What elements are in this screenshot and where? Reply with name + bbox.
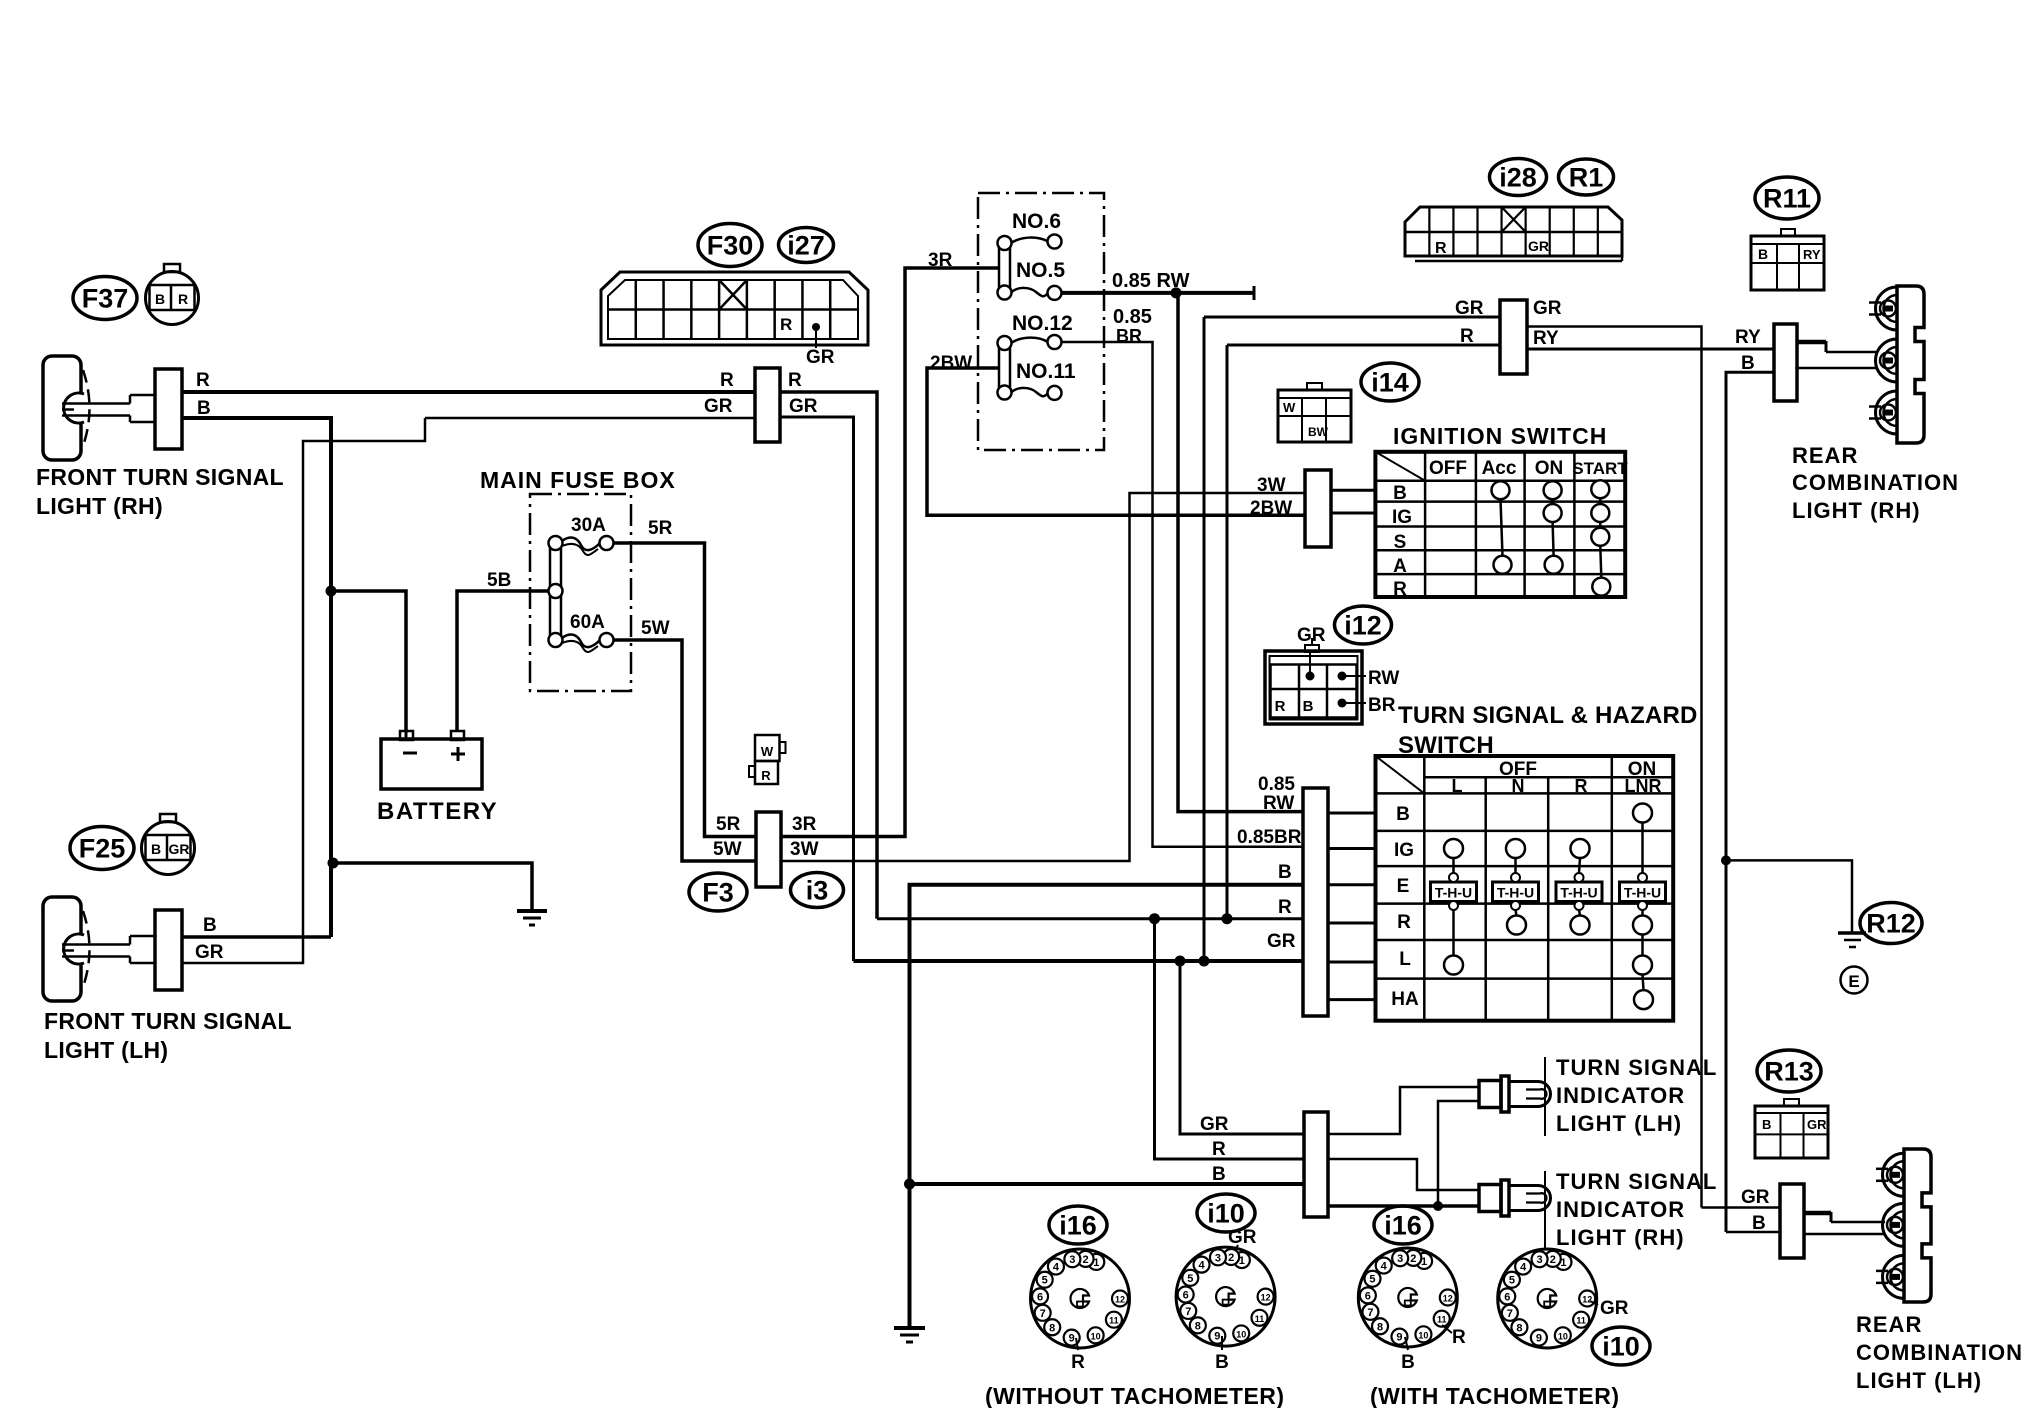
svg-text:REAR: REAR [1792, 443, 1858, 468]
wire B to RH indicator [1328, 1204, 1479, 1208]
svg-text:7: 7 [1507, 1308, 1513, 1320]
wire R (connector to down-run) [780, 392, 877, 919]
connector label F30 [698, 224, 762, 267]
connector ignition switch [1305, 470, 1331, 547]
fuse block (dashed) [978, 193, 1104, 450]
svg-text:R: R [196, 370, 210, 391]
svg-text:9: 9 [1396, 1332, 1402, 1344]
connector label i14 [1361, 363, 1419, 401]
svg-text:11: 11 [1576, 1316, 1586, 1326]
junction B indicator [904, 1179, 915, 1190]
svg-text:L: L [1452, 776, 1463, 796]
svg-text:F3: F3 [702, 877, 734, 907]
svg-text:LIGHT (LH): LIGHT (LH) [1556, 1111, 1682, 1136]
svg-text:RY: RY [1803, 247, 1821, 262]
svg-text:(WITH TACHOMETER): (WITH TACHOMETER) [1370, 1383, 1620, 1408]
svg-text:3: 3 [1215, 1252, 1221, 1264]
wire GR vertical (to TS switch) [1203, 317, 1206, 961]
label R (i16-1) [1076, 1338, 1078, 1350]
svg-text:E: E [1397, 876, 1410, 897]
wire B front (RH light, turns down) [182, 418, 331, 937]
svg-text:RY: RY [1533, 328, 1559, 349]
svg-text:7: 7 [1185, 1306, 1191, 1318]
svg-text:ON: ON [1535, 458, 1564, 479]
svg-text:BR: BR [1368, 695, 1396, 716]
connector label F3 [689, 873, 747, 911]
connector i12 [1265, 651, 1362, 724]
turn signal hazard switch table [1376, 756, 1674, 1021]
wire B up to LH indicator [1438, 1101, 1479, 1206]
svg-text:3R: 3R [792, 814, 817, 835]
svg-text:6: 6 [1037, 1291, 1043, 1303]
pin GR (F30 panel) [812, 323, 820, 331]
svg-text:i12: i12 [1344, 610, 1382, 640]
svg-text:GR: GR [169, 841, 190, 857]
svg-text:R1: R1 [1569, 162, 1604, 192]
junction B/ground [328, 858, 339, 869]
svg-text:LIGHT (RH): LIGHT (RH) [1556, 1225, 1685, 1250]
ground R12 [1838, 931, 1866, 935]
fuse bus bar [550, 543, 561, 641]
svg-text:E: E [1848, 972, 1859, 991]
connector rear harness (GR/RY) [1500, 300, 1527, 374]
connector label i16 (1) [1049, 1206, 1107, 1244]
connector label R12 [1860, 903, 1922, 944]
wire 5W [613, 640, 756, 861]
svg-text:11: 11 [1437, 1315, 1447, 1325]
connector F3/i3 [756, 812, 781, 887]
fuse panel F30 X mark [719, 280, 747, 310]
svg-text:2: 2 [1550, 1254, 1556, 1266]
svg-text:R: R [1452, 1327, 1466, 1348]
svg-text:5W: 5W [713, 839, 742, 860]
svg-text:T-H-U: T-H-U [1560, 885, 1597, 901]
svg-text:2: 2 [1083, 1254, 1089, 1266]
ground (instrument panel) [894, 1326, 925, 1330]
connector label F37 [73, 277, 137, 320]
fuse NO.12/NO.11 bar [999, 343, 1010, 393]
wire RY [1527, 348, 1774, 351]
svg-text:i3: i3 [806, 875, 829, 905]
svg-text:5: 5 [1187, 1273, 1193, 1285]
connector label R11 [1755, 177, 1819, 219]
svg-text:B: B [1762, 1117, 1771, 1132]
fuse panel i28/R1 outline [1405, 207, 1622, 256]
rear combination light (RH) [1897, 286, 1924, 443]
svg-text:LIGHT (RH): LIGHT (RH) [36, 493, 163, 519]
ground (battery area) [517, 909, 547, 913]
connector R13 [1755, 1106, 1828, 1158]
svg-text:IG: IG [1392, 507, 1412, 528]
wire GR into R13 connector [1702, 1206, 1781, 1209]
svg-text:2: 2 [1410, 1253, 1416, 1265]
svg-text:LIGHT (RH): LIGHT (RH) [1792, 498, 1921, 523]
wire R to indicator [1155, 919, 1305, 1159]
svg-text:8: 8 [1516, 1322, 1522, 1334]
connector i16 (without tach) [1031, 1249, 1130, 1348]
fuse NO.6/NO.5 bar [999, 243, 1010, 293]
svg-text:NO.6: NO.6 [1012, 210, 1061, 233]
svg-text:2: 2 [1228, 1252, 1234, 1264]
connector R11 [1751, 236, 1824, 290]
wire 2BW [927, 368, 1305, 515]
svg-text:LIGHT (LH): LIGHT (LH) [1856, 1368, 1982, 1393]
svg-text:3R: 3R [928, 250, 953, 271]
wire GR right of connector [1527, 327, 1702, 1208]
label GR (i10-2) [1590, 1301, 1598, 1305]
label B (i16-2) [1405, 1337, 1408, 1350]
svg-text:7: 7 [1367, 1307, 1373, 1319]
svg-text:5R: 5R [648, 518, 673, 539]
svg-text:4: 4 [1520, 1262, 1527, 1274]
ignition switch table [1375, 452, 1625, 597]
junction B/battery [326, 586, 337, 597]
T-H-U boxes [1431, 882, 1477, 902]
svg-text:F25: F25 [79, 833, 126, 863]
svg-text:GR: GR [1228, 1227, 1257, 1248]
fuse NO.12/NO.11 terminals [998, 336, 1012, 350]
wire 0.85RW end tick [1253, 286, 1256, 300]
fuse panel F30 grid [635, 280, 638, 339]
svg-text:R: R [1435, 240, 1447, 257]
i12 GR pin [1306, 672, 1315, 681]
svg-text:REAR: REAR [1856, 1312, 1922, 1337]
connector label i12 [1335, 606, 1392, 644]
svg-text:R: R [761, 768, 771, 783]
svg-text:NO.12: NO.12 [1012, 312, 1073, 335]
svg-text:RY: RY [1735, 327, 1761, 348]
svg-text:5: 5 [1042, 1275, 1048, 1287]
fuse NO.11 link [1011, 388, 1048, 396]
fuse panel F30/i27 outline [601, 272, 868, 345]
svg-text:4: 4 [1198, 1260, 1205, 1272]
svg-text:GR: GR [1807, 1117, 1827, 1132]
svg-text:BW: BW [1308, 425, 1329, 439]
fuse terminal bottom [549, 633, 563, 647]
turn signal indicator bulb (RH) [1479, 1185, 1501, 1212]
svg-text:5R: 5R [716, 814, 741, 835]
svg-text:i28: i28 [1499, 162, 1537, 192]
connector label F25 [70, 827, 134, 870]
connector i14 [1278, 390, 1351, 442]
svg-text:0.85: 0.85 [1113, 306, 1152, 328]
svg-text:i16: i16 [1384, 1210, 1422, 1240]
fuse terminal mid [549, 584, 563, 598]
svg-text:2BW: 2BW [930, 353, 972, 374]
svg-text:9: 9 [1536, 1333, 1542, 1345]
svg-text:INDICATOR: INDICATOR [1556, 1197, 1685, 1222]
svg-text:60A: 60A [570, 612, 605, 633]
svg-text:TURN SIGNAL: TURN SIGNAL [1556, 1169, 1717, 1194]
connector F3-i3 upper (R/GR) [755, 368, 780, 442]
svg-text:i16: i16 [1059, 1210, 1097, 1240]
svg-text:GR: GR [1600, 1298, 1629, 1319]
svg-text:R: R [788, 370, 802, 391]
fuse NO.12 link [1011, 338, 1048, 343]
svg-text:FRONT TURN SIGNAL: FRONT TURN SIGNAL [36, 464, 284, 490]
svg-text:B: B [1401, 1352, 1415, 1373]
wire 3W [781, 493, 1305, 861]
svg-text:COMBINATION: COMBINATION [1856, 1340, 2023, 1365]
label R (i16-2) [1442, 1325, 1452, 1333]
svg-text:R13: R13 [1764, 1056, 1814, 1086]
svg-text:3: 3 [1537, 1254, 1543, 1266]
fuse NO.5 link [1011, 288, 1048, 296]
svg-text:10: 10 [1418, 1330, 1428, 1340]
svg-text:MAIN FUSE BOX: MAIN FUSE BOX [480, 467, 676, 493]
svg-text:COMBINATION: COMBINATION [1792, 470, 1959, 495]
svg-text:12: 12 [1115, 1295, 1125, 1305]
connector label i10 (2) [1592, 1327, 1650, 1365]
svg-text:LIGHT (LH): LIGHT (LH) [44, 1037, 168, 1063]
svg-text:4: 4 [1053, 1262, 1060, 1274]
svg-text:T-H-U: T-H-U [1435, 885, 1472, 901]
TS connector stubs [1328, 812, 1376, 815]
connector i10 (without tach) [1176, 1247, 1275, 1346]
svg-text:4: 4 [1381, 1261, 1388, 1273]
svg-text:R: R [1278, 897, 1292, 918]
junction GR/indicator [1175, 956, 1186, 967]
junction R12 [1721, 855, 1731, 865]
svg-text:B: B [1278, 862, 1292, 883]
svg-text:10: 10 [1091, 1331, 1101, 1341]
wire 3R [781, 268, 998, 837]
i12 RW pin [1338, 672, 1347, 681]
fuse NO.6 link [1011, 238, 1048, 243]
wire battery minus stub [405, 732, 408, 739]
svg-text:R12: R12 [1866, 908, 1916, 938]
svg-text:i14: i14 [1371, 367, 1409, 397]
svg-text:i10: i10 [1602, 1331, 1640, 1361]
wire R vertical (to TS switch) [1226, 345, 1229, 919]
svg-text:6: 6 [1365, 1290, 1371, 1302]
svg-text:IGNITION SWITCH: IGNITION SWITCH [1393, 423, 1607, 449]
svg-text:HA: HA [1391, 989, 1419, 1010]
svg-text:0.85 RW: 0.85 RW [1112, 270, 1190, 292]
wire to R12 ground [1726, 860, 1852, 933]
svg-text:INDICATOR: INDICATOR [1556, 1083, 1685, 1108]
svg-text:i27: i27 [787, 230, 825, 260]
wire 5R [613, 543, 756, 837]
connector label R1 [1559, 159, 1614, 195]
svg-text:12: 12 [1582, 1295, 1592, 1305]
fuse terminal top [549, 536, 563, 550]
wire GR to LH indicator [1328, 1087, 1479, 1134]
junction R/rear [1222, 913, 1233, 924]
svg-text:10: 10 [1236, 1329, 1246, 1339]
svg-text:TURN SIGNAL & HAZARD: TURN SIGNAL & HAZARD [1398, 702, 1698, 729]
ignition contacts [1492, 481, 1510, 499]
wire GR front (connector to down-run) [780, 417, 854, 961]
svg-text:S: S [1394, 532, 1407, 553]
svg-text:NO.11: NO.11 [1016, 360, 1076, 383]
connector i10 (with tach) [1498, 1249, 1597, 1348]
svg-text:R: R [720, 370, 734, 391]
svg-text:R: R [1575, 776, 1588, 796]
svg-text:11: 11 [1109, 1316, 1119, 1326]
connector rear light RH [1774, 324, 1797, 401]
svg-text:B: B [197, 398, 211, 419]
wire B into R13 connector [1726, 1231, 1780, 1234]
svg-text:R: R [178, 291, 188, 307]
connector label i16 (2) [1374, 1206, 1432, 1244]
svg-text:B: B [1303, 698, 1314, 715]
wire B to indicator connector [910, 1182, 1305, 1186]
svg-text:GR: GR [1200, 1114, 1229, 1135]
svg-text:0.85BR: 0.85BR [1237, 827, 1302, 848]
svg-text:GR: GR [1533, 298, 1562, 319]
svg-text:8: 8 [1195, 1320, 1201, 1332]
fuse 60A element [562, 635, 600, 648]
svg-text:5W: 5W [641, 618, 670, 639]
wire GR to rear connector [1204, 316, 1500, 319]
svg-text:GR: GR [1741, 1187, 1770, 1208]
svg-text:B: B [1393, 483, 1407, 504]
svg-text:T-H-U: T-H-U [1497, 885, 1534, 901]
wire RW down to switch [1178, 293, 1303, 812]
i12 BR pin [1338, 699, 1347, 708]
svg-text:Acc: Acc [1482, 458, 1517, 479]
svg-text:B: B [151, 841, 161, 857]
svg-text:12: 12 [1261, 1293, 1271, 1303]
svg-text:0.85: 0.85 [1258, 774, 1295, 795]
wire R front (RH light to connector F3 area) [182, 390, 755, 394]
front turn signal light (LH) [43, 897, 81, 1001]
svg-text:5: 5 [1509, 1275, 1515, 1287]
svg-text:IG: IG [1394, 840, 1414, 861]
svg-text:9: 9 [1069, 1333, 1075, 1345]
connector i16 (with tach) [1358, 1248, 1457, 1347]
wire 0.85BR [1061, 342, 1303, 847]
svg-text:F37: F37 [82, 283, 129, 313]
svg-text:3: 3 [1069, 1254, 1075, 1266]
connector label i28 [1490, 159, 1547, 196]
fuse 30A element [562, 538, 600, 551]
wire to rear RH bulb [1797, 340, 1826, 345]
svg-text:7: 7 [1040, 1308, 1046, 1320]
connector label R13 [1757, 1050, 1821, 1092]
svg-text:8: 8 [1377, 1321, 1383, 1333]
wire battery plus to 5B [457, 591, 553, 731]
wire GR to indicator [1180, 961, 1304, 1134]
svg-text:12: 12 [1443, 1294, 1453, 1304]
ignition contact links [1501, 499, 1503, 556]
svg-text:2BW: 2BW [1250, 498, 1292, 519]
wire GR (front LH riser) [183, 418, 425, 963]
svg-text:8: 8 [1049, 1322, 1055, 1334]
connector indicator lights [1304, 1112, 1328, 1217]
svg-text:3: 3 [1397, 1253, 1403, 1265]
svg-text:GR: GR [1528, 238, 1549, 254]
svg-text:F30: F30 [707, 230, 754, 260]
svg-text:B: B [1758, 246, 1768, 262]
wire R to RH indicator [1328, 1159, 1479, 1190]
svg-text:LNR: LNR [1625, 776, 1662, 796]
svg-text:GR: GR [1267, 931, 1296, 952]
svg-text:9: 9 [1214, 1331, 1220, 1343]
fuse panel i28 X mark [1502, 207, 1526, 232]
fuse panel i28 grid [1428, 207, 1430, 256]
turn signal indicator bulb (LH) [1479, 1081, 1501, 1108]
svg-text:OFF: OFF [1429, 458, 1467, 479]
wire B to body ground [333, 863, 532, 911]
svg-text:6: 6 [1183, 1290, 1189, 1302]
fuse 60A right terminal [600, 633, 614, 647]
svg-text:30A: 30A [571, 515, 606, 536]
svg-text:BR: BR [1116, 326, 1142, 346]
junction RW [1171, 287, 1182, 298]
svg-text:B: B [1396, 804, 1410, 825]
svg-text:START: START [1572, 459, 1628, 478]
svg-text:RW: RW [1368, 668, 1399, 689]
svg-text:TURN SIGNAL: TURN SIGNAL [1556, 1055, 1717, 1080]
svg-text:BATTERY: BATTERY [377, 798, 498, 825]
svg-text:3W: 3W [790, 839, 819, 860]
fuse 30A right terminal [600, 536, 614, 550]
svg-text:B: B [203, 915, 217, 936]
junction R/indicator [1149, 913, 1160, 924]
svg-text:N: N [1512, 776, 1525, 796]
svg-text:W: W [761, 744, 774, 759]
front turn signal light (RH) [43, 356, 81, 460]
connector rear light LH [1780, 1184, 1804, 1258]
svg-text:5B: 5B [487, 570, 511, 591]
wire 0.85RW [1061, 291, 1254, 295]
svg-text:3W: 3W [1257, 475, 1286, 496]
main fuse box (dashed) [530, 494, 631, 691]
junction B indicators [1433, 1201, 1443, 1211]
svg-text:NO.5: NO.5 [1016, 259, 1065, 282]
svg-text:10: 10 [1558, 1331, 1568, 1341]
svg-text:R: R [1393, 579, 1407, 600]
wire B rear [1726, 372, 1774, 1232]
fuse NO.6/NO.5 terminals [998, 236, 1012, 250]
label B (i10-1) [1221, 1336, 1223, 1350]
svg-text:R: R [1397, 912, 1411, 933]
svg-text:6: 6 [1504, 1291, 1510, 1303]
svg-text:W: W [1283, 400, 1296, 415]
svg-text:L: L [1399, 949, 1411, 970]
svg-text:FRONT TURN SIGNAL: FRONT TURN SIGNAL [44, 1008, 292, 1034]
connector symbol F25 (B|GR) [160, 814, 176, 822]
wire B front (LH light) [182, 935, 331, 939]
svg-text:RW: RW [1263, 793, 1294, 814]
svg-text:GR: GR [806, 347, 835, 368]
wire R bottom run to switch [877, 917, 1303, 920]
svg-text:(WITHOUT TACHOMETER): (WITHOUT TACHOMETER) [985, 1383, 1285, 1408]
svg-text:i10: i10 [1207, 1198, 1245, 1228]
battery [381, 739, 482, 789]
svg-text:GR: GR [789, 396, 818, 417]
wire R to rear connector [1227, 344, 1500, 347]
svg-text:R11: R11 [1763, 183, 1811, 213]
svg-text:R: R [1071, 1352, 1085, 1373]
svg-text:11: 11 [1255, 1314, 1265, 1324]
wire B to battery minus [331, 591, 406, 732]
svg-text:B: B [1212, 1164, 1226, 1185]
svg-text:5: 5 [1369, 1274, 1375, 1286]
connector turn signal switch [1303, 788, 1328, 1016]
rear combination light (LH) [1904, 1149, 1931, 1302]
node E [1841, 967, 1868, 994]
TS contact links [1452, 858, 1455, 873]
wire GR bottom run to switch [854, 959, 1304, 963]
svg-text:B: B [1215, 1352, 1229, 1373]
indicator text separators [1544, 1057, 1546, 1136]
svg-text:GR: GR [704, 396, 733, 417]
svg-text:GR: GR [195, 942, 224, 963]
svg-text:R: R [780, 315, 792, 334]
